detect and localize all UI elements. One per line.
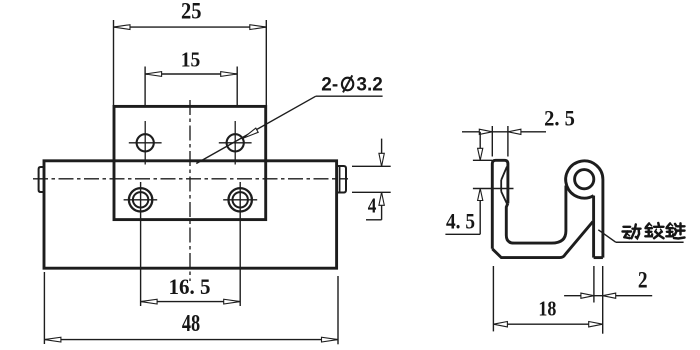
svg-text:15: 15 bbox=[181, 48, 201, 72]
dimension 18 (side view overall depth) bbox=[493, 266, 602, 331]
side view: hem fold marks inside left wall bbox=[501, 167, 507, 204]
upper-right hole (phi 3.2) bbox=[219, 121, 252, 165]
svg-text:4. 5: 4. 5 bbox=[446, 209, 475, 234]
label text: dong jiao lian (movable hinge), drawn strokes bbox=[623, 223, 685, 239]
svg-text:18: 18 bbox=[538, 297, 556, 321]
dimension 16.5 (lower hole spacing), extension lines double as hole centerlines bbox=[141, 182, 241, 306]
leader 2-phi3.2 (hole callout) bbox=[196, 74, 383, 163]
svg-text:2: 2 bbox=[638, 268, 648, 293]
dimension 2.5 (wall thickness at hem) bbox=[462, 105, 575, 156]
knuckle: rolled outer curl bbox=[566, 161, 603, 198]
left hinge pin tab bbox=[39, 167, 44, 192]
movable leaf strip hanging from knuckle bbox=[594, 180, 603, 258]
svg-text:48: 48 bbox=[182, 311, 200, 337]
lower-right mounting hole (double circle) bbox=[223, 188, 257, 211]
side view: fixed leaf outer contour (left wall, bottom, rising diagonal) bbox=[492, 160, 593, 257]
dimension 4.5 (hem height) bbox=[445, 132, 513, 235]
dimension 2 (movable leaf thickness) bbox=[564, 266, 652, 334]
front view: upper hinge plate (25 wide) bbox=[114, 106, 266, 219]
dimension 4 (pin tab height) bbox=[352, 139, 391, 220]
vertical centerline of front view bbox=[189, 100, 191, 281]
svg-text:4: 4 bbox=[368, 193, 377, 217]
knuckle: pin bore inner circle bbox=[575, 170, 594, 189]
right hinge pin tab bbox=[337, 166, 346, 193]
horizontal pin centerline bbox=[33, 178, 348, 180]
lower-left mounting hole (double circle) bbox=[124, 188, 158, 211]
dimension 15 (upper hole spacing) bbox=[145, 48, 237, 107]
dimension 25 (upper plate width) bbox=[114, 0, 267, 106]
svg-text:25: 25 bbox=[181, 0, 202, 24]
svg-text:2. 5: 2. 5 bbox=[544, 105, 575, 130]
upper-left hole (phi 3.2) bbox=[129, 121, 162, 165]
side view: fixed leaf inner contour bbox=[506, 186, 566, 244]
svg-text:3.2: 3.2 bbox=[356, 74, 382, 95]
front view: lower hinge plate (48 wide) bbox=[44, 161, 337, 268]
dimension 48 (lower plate width) bbox=[44, 272, 338, 344]
label: leader line to movable leaf bbox=[598, 230, 683, 243]
svg-text:16. 5: 16. 5 bbox=[169, 274, 211, 299]
svg-text:2-: 2- bbox=[321, 74, 338, 95]
